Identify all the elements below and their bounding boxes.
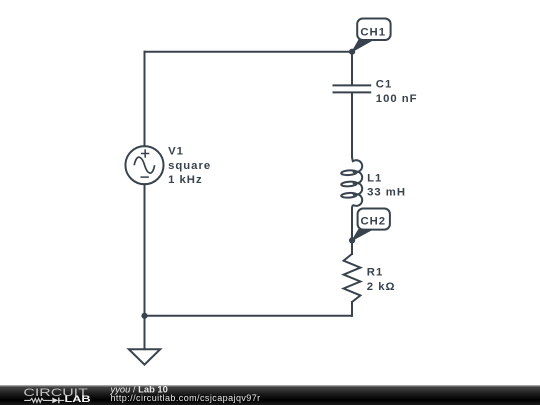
wire CH1 node to C1 top plate: [351, 52, 353, 85]
wire top (CH1 net): [145, 51, 353, 53]
wire left lower (V1 - terminal to ground net): [144, 184, 146, 316]
wire C1 bottom plate to L1: [351, 93, 353, 157]
svg-text:1 kHz: 1 kHz: [168, 174, 203, 186]
capacitor C1: [333, 85, 372, 92]
svg-text:http://circuitlab.com/csjcapaj: http://circuitlab.com/csjcapajqv97r: [111, 393, 261, 403]
svg-text:CH2: CH2: [360, 216, 386, 228]
svg-text:CH1: CH1: [360, 27, 386, 39]
svg-text:L1: L1: [367, 172, 382, 184]
ground: [129, 349, 160, 364]
logo resistor zigzag wire: [24, 398, 52, 402]
wire CH2 node to R1: [351, 240, 353, 254]
resistor R1: [344, 254, 361, 302]
footer bar: [0, 385, 540, 405]
svg-text:100 nF: 100 nF: [376, 93, 418, 105]
probe flag CH2: [352, 209, 390, 241]
svg-text:LAB: LAB: [65, 394, 92, 404]
svg-text:square: square: [168, 160, 211, 172]
probe flag CH1: [352, 19, 391, 52]
wire R1 to bottom net: [351, 302, 353, 316]
wire bottom (ground net): [145, 315, 353, 317]
node ground-net junction dot: [141, 313, 147, 319]
svg-text:C1: C1: [376, 79, 392, 91]
inductor L1: [341, 150, 362, 240]
node CH1 junction dot: [349, 49, 355, 55]
voltage source V1 (square, 1 kHz): [125, 146, 163, 184]
logo diode: [52, 398, 58, 404]
svg-text:R1: R1: [367, 267, 383, 279]
node CH2 junction dot: [349, 237, 355, 243]
svg-text:2 kΩ: 2 kΩ: [367, 281, 396, 293]
wire ground stub: [144, 316, 146, 349]
wire left upper (V1 + terminal to top): [144, 52, 146, 147]
svg-text:V1: V1: [168, 146, 184, 158]
svg-text:33 mH: 33 mH: [367, 187, 406, 199]
